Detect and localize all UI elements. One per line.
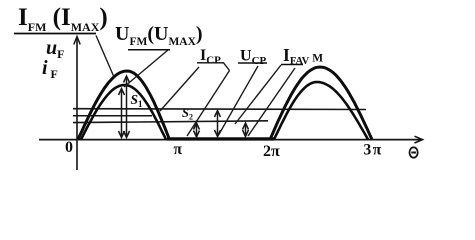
measurement arrow at I_FAV M level <box>243 123 249 137</box>
axis symbol Theta (circled) <box>410 147 418 157</box>
level line I_FAV M <box>73 121 268 123</box>
leader line from I_CP label to arrow <box>187 71 230 137</box>
underline of I_CP label <box>197 62 224 64</box>
waveform pulse 1 outer curve (i_F) <box>78 71 170 140</box>
svg-text:UCP: UCP <box>240 48 267 68</box>
leader line from I_FM label to peak arrow <box>96 36 114 78</box>
svg-text:uF: uF <box>46 37 64 61</box>
measurement arrow I_FM (axis to outer peak) <box>124 76 130 138</box>
underline of I_FAV M label <box>281 64 303 66</box>
level line U_CP (short, inside first pulse) <box>73 115 152 117</box>
waveform pulse 1 inner curve (u_F) <box>81 85 166 140</box>
flat segment between pulses <box>167 137 274 140</box>
svg-text:UFM(UMAX): UFM(UMAX) <box>115 23 203 48</box>
svg-text:iF: iF <box>42 57 58 81</box>
svg-text:IFAVM: IFAVM <box>283 45 323 67</box>
underline of I_FM label <box>14 33 96 35</box>
leader line from U_FM label to inner peak <box>124 50 168 87</box>
svg-text:π: π <box>174 141 183 158</box>
svg-text:2π: 2π <box>263 143 280 160</box>
leader line from U_CP label <box>218 66 258 136</box>
leader hook from I_CP underline <box>224 63 230 71</box>
svg-text:ICP: ICP <box>200 47 221 67</box>
level line I_CP <box>73 108 366 111</box>
measurement arrow U_FM (axis to inner peak) <box>119 89 125 138</box>
underline of U_CP label <box>238 62 267 64</box>
measurement arrow at U_CP level <box>194 123 200 137</box>
leader line from I_FAV M label (left) <box>235 65 281 124</box>
waveform pulse 2 inner curve <box>274 82 368 140</box>
svg-text:IFM (IMAX): IFM (IMAX) <box>18 4 108 34</box>
leader line from I_FAV M label to arrow <box>248 68 295 136</box>
svg-text:0: 0 <box>65 139 73 156</box>
svg-text:3π: 3π <box>364 142 382 159</box>
underline of U_FM label <box>128 49 170 51</box>
x-axis (theta axis) <box>39 136 423 143</box>
leader line from I_CP label (left) <box>160 67 199 111</box>
waveform pulse 2 outer curve <box>270 67 372 140</box>
measurement arrow at I_CP level <box>215 111 221 137</box>
y-axis (u_F / i_F axis) <box>74 37 80 171</box>
